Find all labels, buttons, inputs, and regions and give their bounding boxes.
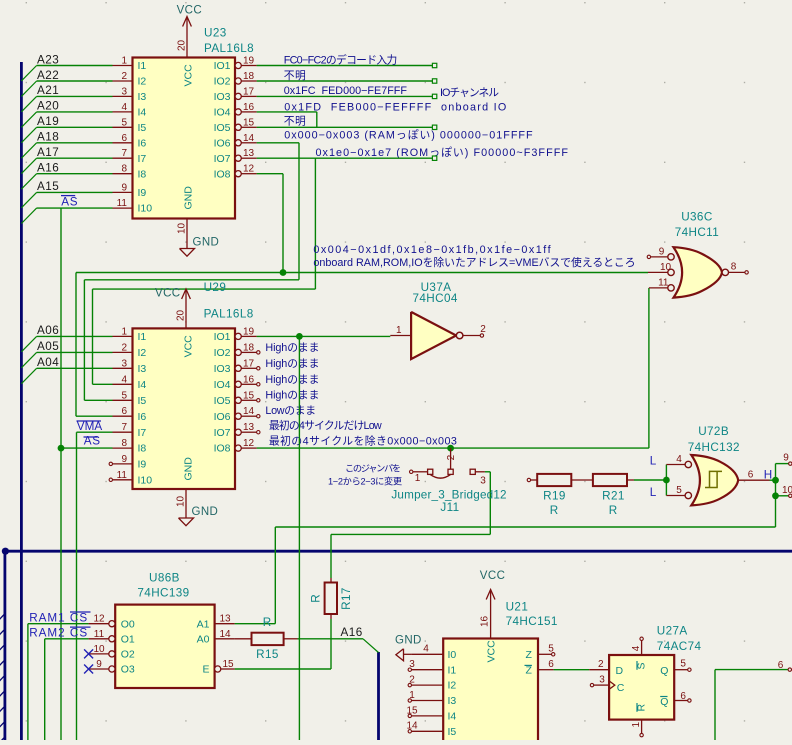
svg-text:I6: I6	[138, 137, 147, 149]
svg-text:9: 9	[121, 182, 127, 193]
wire VMA to U29 pin7	[77, 431, 113, 433]
svg-text:IO6: IO6	[214, 411, 231, 423]
svg-text:13: 13	[243, 148, 255, 159]
wire out net vertical	[775, 464, 777, 527]
svg-text:E: E	[202, 664, 209, 676]
svg-text:GND: GND	[192, 506, 219, 518]
svg-text:3: 3	[121, 358, 127, 369]
wire AS vertical	[60, 208, 62, 740]
power GND U21	[396, 649, 404, 661]
junction out net b	[772, 492, 779, 499]
wire to U29 pin6	[76, 415, 113, 417]
svg-text:IO2: IO2	[214, 76, 231, 88]
svg-text:VMA: VMA	[77, 420, 103, 433]
svg-text:Highのまま: Highのまま	[265, 341, 319, 354]
svg-text:15: 15	[243, 117, 255, 128]
wire R17 bottom	[330, 619, 332, 669]
U21 pin 15 I4	[411, 715, 443, 717]
svg-text:2: 2	[598, 659, 604, 670]
svg-text:J11: J11	[440, 501, 459, 514]
svg-text:O0: O0	[121, 618, 135, 630]
wire A04	[37, 367, 113, 369]
U21 pin 14 I5	[411, 730, 443, 732]
svg-text:8: 8	[731, 262, 737, 273]
svg-text:I3: I3	[138, 363, 147, 375]
wire U23 pin13	[257, 157, 433, 159]
svg-text:14: 14	[219, 629, 231, 640]
svg-text:Highのまま: Highのまま	[265, 373, 319, 386]
U36C pin 10	[668, 269, 674, 275]
svg-text:6: 6	[748, 470, 754, 481]
svg-text:VCC: VCC	[480, 570, 505, 582]
svg-text:5: 5	[121, 390, 127, 401]
svg-text:A21: A21	[37, 84, 59, 97]
U36C pin 11	[668, 285, 674, 291]
wire A21	[37, 95, 113, 97]
svg-text:Highのまま: Highのまま	[265, 357, 319, 370]
svg-text:17: 17	[243, 358, 255, 369]
junction AS at U29 pin8	[58, 445, 65, 452]
wire RAM1 CS	[28, 623, 89, 625]
wire U23 pin14 a	[257, 142, 299, 144]
bus entry A16	[21, 174, 36, 189]
svg-text:2: 2	[446, 454, 457, 460]
U36C pin 9	[668, 254, 674, 260]
svg-text:Highのまま: Highのまま	[265, 389, 319, 402]
wire U86B A1	[235, 623, 276, 625]
svg-text:6: 6	[548, 659, 554, 670]
svg-text:13: 13	[243, 422, 255, 433]
svg-text:I4: I4	[138, 107, 147, 119]
svg-text:I2: I2	[138, 347, 147, 359]
svg-text:74HC04: 74HC04	[413, 292, 458, 305]
U21 pin 6 Zbar	[538, 669, 554, 671]
svg-text:IO3: IO3	[214, 91, 231, 103]
wire jumper3 to R17	[331, 533, 490, 535]
U23 pin 3 I3	[113, 95, 133, 97]
wire VMA down	[76, 432, 78, 740]
svg-text:O2: O2	[121, 649, 135, 661]
wire U23 pin14 to U29 pin5	[83, 280, 85, 401]
wire A16	[298, 638, 364, 640]
U29 pin 8 I8	[113, 447, 133, 449]
svg-text:I0: I0	[448, 649, 457, 661]
jumper J11 Jumper_3_Bridged12	[410, 470, 413, 473]
U23 pin 2 I2	[113, 80, 133, 82]
svg-text:A19: A19	[37, 115, 59, 128]
svg-text:I2: I2	[138, 76, 147, 88]
U21 pin 5 Z	[538, 653, 552, 655]
svg-text:0x1FD FEB000−FEFFFF onboard: 0x1FD FEB000−FEFFFF onboard IO	[284, 101, 507, 113]
svg-text:D: D	[616, 665, 624, 677]
wire AS to U23 pin 11	[37, 207, 113, 209]
svg-text:VCC: VCC	[155, 288, 180, 300]
svg-text:IO5: IO5	[214, 395, 231, 407]
wire to pin9 right	[776, 463, 789, 465]
svg-text:I5: I5	[138, 122, 147, 134]
open wire end pin13	[432, 156, 436, 160]
svg-text:IO2: IO2	[214, 347, 231, 359]
svg-text:2: 2	[121, 71, 127, 82]
wire A19	[37, 126, 113, 128]
svg-text:A04: A04	[37, 356, 59, 369]
svg-text:L: L	[650, 486, 657, 499]
wire U23 pin16 down	[316, 112, 318, 127]
svg-text:2: 2	[121, 342, 127, 353]
svg-text:I6: I6	[138, 411, 147, 423]
svg-text:1−2から2−3に変更: 1−2から2−3に変更	[328, 475, 402, 486]
svg-text:1: 1	[121, 326, 127, 337]
wire A15	[37, 191, 113, 193]
IC U29 PAL16L8 body	[133, 328, 236, 489]
svg-text:GND: GND	[193, 236, 220, 248]
U29 pin 11 I10	[113, 479, 133, 481]
svg-text:6: 6	[680, 691, 686, 702]
wire right pin6 down	[714, 670, 716, 740]
svg-text:20: 20	[176, 309, 187, 321]
inverter U37A 74HC04	[411, 312, 456, 359]
svg-text:RAM2 CS: RAM2 CS	[29, 627, 88, 640]
svg-text:5: 5	[121, 117, 127, 128]
power VCC U23	[186, 18, 188, 58]
svg-text:12: 12	[93, 614, 105, 625]
wire A05	[37, 351, 113, 353]
wire A06	[37, 335, 113, 337]
U23 pin 16 IO4	[235, 109, 241, 115]
svg-text:I8: I8	[138, 443, 147, 455]
svg-text:4: 4	[676, 454, 682, 465]
svg-text:7: 7	[121, 422, 127, 433]
U86B pin 15 E	[215, 666, 221, 672]
bus entries lower-left edge	[0, 613, 6, 745]
wire to U29 pin5	[84, 399, 112, 401]
bus entry A22	[21, 81, 36, 96]
resistor R21 lead right	[627, 479, 634, 481]
svg-text:A23: A23	[37, 53, 59, 66]
svg-text:I9: I9	[138, 187, 147, 199]
svg-text:VCC: VCC	[177, 5, 202, 17]
svg-text:A0: A0	[197, 633, 210, 645]
svg-text:R15: R15	[256, 648, 279, 661]
U72B schmitt mark	[705, 471, 722, 487]
U23 pin 19 IO1	[235, 62, 241, 68]
svg-text:GND: GND	[182, 457, 194, 481]
svg-text:R: R	[310, 594, 323, 602]
U29 pin 16 IO4	[235, 381, 241, 387]
svg-text:0x004−0x1df,0x1e8−0x1fb,0x1fe−: 0x004−0x1df,0x1e8−0x1fb,0x1fe−0x1ff	[313, 244, 552, 256]
junction pin12 net	[280, 269, 287, 276]
svg-text:11: 11	[117, 470, 128, 481]
svg-text:9: 9	[121, 454, 127, 465]
U23 pin 9 I9	[113, 191, 133, 193]
U27A pin 1 Rbar	[641, 720, 643, 734]
U23 pin 18 IO2	[235, 78, 241, 84]
svg-text:A18: A18	[37, 131, 59, 144]
IC U23 PAL16L8 body	[133, 58, 236, 219]
svg-text:O3: O3	[121, 664, 135, 676]
U86B pin 11 O1	[109, 636, 115, 642]
svg-text:I3: I3	[138, 91, 147, 103]
svg-text:74HC11: 74HC11	[675, 226, 719, 239]
U27A pin 5 Q	[674, 669, 688, 671]
wire A17	[37, 157, 113, 159]
U23 pin 1 I1	[113, 65, 133, 67]
svg-text:VCC: VCC	[182, 64, 194, 87]
wire A1 net down	[274, 527, 276, 624]
resistor R19 lead	[531, 479, 538, 481]
svg-text:I7: I7	[138, 153, 147, 165]
open wire end pin15	[432, 125, 436, 129]
open wire end pin19	[432, 63, 436, 67]
wire U29 pin12 row	[257, 447, 649, 449]
svg-text:IOチャンネル: IOチャンネル	[440, 86, 499, 99]
svg-text:I4: I4	[448, 711, 457, 723]
svg-text:4: 4	[423, 644, 429, 655]
wire A23	[37, 65, 113, 67]
wire U23 pin18	[257, 80, 433, 82]
U27A pin 3 C clock	[594, 684, 610, 686]
bus entry A06	[21, 336, 36, 351]
wire VME net down to U29 pin6	[75, 273, 77, 417]
svg-text:A06: A06	[37, 324, 59, 337]
U29 pin 6 I6	[113, 415, 133, 417]
svg-text:8: 8	[121, 164, 127, 175]
svg-text:4: 4	[121, 102, 127, 113]
wire U23 pin16 a	[257, 111, 317, 113]
svg-text:6: 6	[121, 133, 127, 144]
svg-text:0x1e0−0x1e7 (ROMっぽい) F00000~F3: 0x1e0−0x1e7 (ROMっぽい) F00000~F3FFFF	[316, 146, 570, 159]
power VCC U29	[185, 290, 187, 328]
resistor R17	[330, 578, 332, 583]
U27A pin 4 Sbar	[641, 641, 643, 656]
open wire end pin18	[432, 79, 436, 83]
wire U21 Z to U27A D	[554, 669, 590, 671]
U29 pin 4 I4	[113, 383, 133, 385]
svg-text:74HC151: 74HC151	[506, 615, 558, 628]
svg-text:16: 16	[243, 374, 255, 385]
wire RAM2 CS down	[44, 639, 46, 740]
wire U23 pin13 left	[93, 288, 316, 290]
U86B pin 9 O3	[109, 666, 115, 672]
svg-text:0x000−0x003 (RAMっぽい) 000000−01: 0x000−0x003 (RAMっぽい) 000000−01FFFF	[284, 129, 533, 142]
wire U23 pin13 to U29 pin4	[92, 289, 94, 384]
wire U23 pin17	[257, 95, 433, 97]
svg-text:C: C	[617, 682, 625, 694]
bus horizontal	[5, 550, 792, 553]
svg-text:8: 8	[121, 438, 127, 449]
svg-text:A20: A20	[37, 100, 59, 113]
bus vertical address bus left	[20, 62, 23, 740]
svg-text:IO7: IO7	[214, 153, 231, 165]
svg-text:IO1: IO1	[214, 60, 231, 72]
bus entry A18	[21, 143, 36, 158]
svg-text:A22: A22	[37, 69, 59, 82]
U29 pin 5 I5	[113, 399, 133, 401]
U23 pin 14 IO6	[235, 140, 241, 146]
J11 pin2 line	[450, 448, 452, 469]
wire right pin6	[715, 669, 788, 671]
svg-text:IO6: IO6	[214, 137, 231, 149]
svg-text:13: 13	[219, 614, 231, 625]
wire U23 pin14 left	[84, 279, 299, 281]
IC U86B 74HC139 body	[115, 605, 214, 688]
svg-text:I5: I5	[448, 726, 457, 738]
svg-text:最初の4サイクルを除き0x000−0x003: 最初の4サイクルを除き0x000−0x003	[269, 433, 457, 447]
wire up to U36C pin11	[648, 288, 650, 448]
svg-text:O1: O1	[121, 633, 135, 645]
svg-text:I10: I10	[138, 474, 153, 486]
wire U23 pin13 down	[314, 158, 316, 289]
svg-text:R: R	[550, 504, 558, 517]
svg-text:I1: I1	[448, 664, 457, 676]
svg-text:3: 3	[599, 675, 605, 686]
U86B pin 13 A1	[215, 623, 235, 625]
wire A18	[37, 142, 113, 144]
U23 pin 11 I10	[113, 207, 133, 209]
svg-text:10: 10	[782, 485, 792, 496]
svg-text:onboard RAM,ROM,IOを除いたアドレス=VME: onboard RAM,ROM,IOを除いたアドレス=VMEバスで使えるところ	[313, 255, 635, 269]
svg-text:5: 5	[676, 485, 682, 496]
svg-text:GND: GND	[395, 635, 422, 647]
svg-text:0x1FC FED000−FE7FFF: 0x1FC FED000−FE7FFF	[284, 85, 408, 97]
svg-text:18: 18	[243, 342, 255, 353]
wire AS to U29 pin8	[61, 447, 113, 449]
svg-text:不明: 不明	[284, 115, 307, 128]
wire RAM1 CS down	[27, 624, 29, 740]
svg-text:10: 10	[177, 222, 188, 234]
bus entry A21	[21, 96, 36, 111]
svg-text:最初の4サイクルだけLow: 最初の4サイクルだけLow	[269, 418, 382, 432]
svg-text:不明: 不明	[284, 69, 307, 82]
svg-text:FC0−FC2のデコード入力: FC0−FC2のデコード入力	[284, 52, 397, 66]
svg-text:9: 9	[96, 659, 102, 670]
svg-text:5: 5	[548, 643, 554, 654]
pin 10 right edge	[789, 494, 792, 497]
svg-text:Jumper_3_Bridged12: Jumper_3_Bridged12	[391, 488, 506, 501]
open wire end pin17	[432, 94, 436, 98]
svg-text:A17: A17	[37, 146, 59, 159]
svg-text:5: 5	[680, 659, 686, 670]
wire U72B out	[770, 479, 776, 481]
svg-text:10: 10	[660, 262, 672, 273]
power GND U29	[185, 489, 187, 518]
svg-text:R21: R21	[602, 490, 625, 503]
U23 pin 4 I4	[113, 111, 133, 113]
bus entry A05	[21, 352, 36, 367]
U27A pin 6 Qbar	[674, 700, 688, 702]
wire U72B input tie	[665, 465, 667, 496]
U29 pin 9 I9	[113, 463, 133, 465]
U23 pin 7 I7	[113, 157, 133, 159]
svg-text:I10: I10	[138, 203, 153, 215]
svg-text:9: 9	[783, 453, 789, 464]
svg-text:9: 9	[659, 246, 665, 257]
svg-text:IO5: IO5	[214, 122, 231, 134]
svg-text:74AC74: 74AC74	[657, 640, 702, 653]
svg-text:2: 2	[480, 324, 486, 335]
power VCC U21	[490, 590, 492, 639]
svg-text:I3: I3	[448, 695, 457, 707]
U27A pin 2 D	[589, 669, 609, 671]
U29 pin 15 IO5	[235, 397, 241, 403]
svg-text:PAL16L8: PAL16L8	[204, 42, 254, 55]
svg-text:10: 10	[176, 495, 187, 507]
resistor R21	[593, 474, 627, 486]
wire U23 pin12 a	[257, 173, 283, 175]
bus entry A17	[21, 158, 36, 173]
wire R17 top	[330, 534, 332, 578]
U23 pin 15 IO5	[235, 124, 241, 130]
wire A16	[37, 173, 113, 175]
svg-text:IO7: IO7	[214, 427, 231, 439]
U23 pin 6 I6	[113, 142, 133, 144]
U72B pin 4	[685, 461, 691, 467]
svg-text:A16: A16	[341, 626, 363, 639]
svg-text:I1: I1	[138, 331, 147, 343]
svg-text:19: 19	[243, 56, 255, 67]
svg-text:IO8: IO8	[214, 168, 231, 180]
svg-text:11: 11	[658, 277, 669, 288]
U86B pin 10 O2	[109, 651, 115, 657]
U23 pin 13 IO7	[235, 155, 241, 161]
svg-text:4: 4	[631, 645, 642, 651]
wire A20	[37, 111, 113, 113]
svg-text:U36C: U36C	[681, 211, 712, 224]
wire to pin10 right	[776, 495, 789, 497]
U21 pin 3 I1	[411, 669, 443, 671]
svg-text:1: 1	[396, 325, 402, 336]
svg-text:3: 3	[480, 475, 486, 486]
svg-text:VCC: VCC	[182, 335, 194, 358]
svg-text:16: 16	[480, 615, 491, 627]
svg-text:20: 20	[177, 39, 188, 51]
bus entry A15	[21, 192, 36, 207]
svg-text:R19: R19	[543, 490, 566, 503]
svg-text:AS: AS	[61, 196, 78, 209]
svg-text:I8: I8	[138, 168, 147, 180]
svg-text:I7: I7	[138, 427, 147, 439]
U29 pin 19 IO1	[235, 333, 241, 339]
junction jumper tap	[447, 445, 454, 452]
svg-text:IO8: IO8	[214, 443, 231, 455]
U29 pin 14 IO6	[235, 413, 241, 419]
svg-text:I2: I2	[448, 680, 457, 692]
U23 pin 17 IO3	[235, 93, 241, 99]
svg-text:19: 19	[243, 326, 255, 337]
svg-text:10: 10	[93, 644, 105, 655]
bus entry A20	[21, 112, 36, 127]
svg-text:R17: R17	[340, 587, 353, 610]
U29 pin 17 IO3	[235, 365, 241, 371]
U29 pin 18 IO2	[235, 349, 241, 355]
wire J11 pin3	[485, 471, 490, 473]
svg-text:74HC139: 74HC139	[137, 587, 189, 600]
svg-text:17: 17	[243, 86, 255, 97]
wire pin19 net down	[298, 336, 300, 740]
svg-text:14: 14	[243, 133, 255, 144]
svg-text:Lowのまま: Lowのまま	[265, 404, 315, 417]
svg-text:RAM1 CS: RAM1 CS	[29, 611, 88, 624]
wire to U29 pin4	[93, 383, 113, 385]
svg-text:A05: A05	[37, 340, 59, 353]
wire U23 pin15	[257, 126, 433, 128]
bus entry A23	[21, 66, 36, 81]
U72B pin 6 output	[738, 479, 769, 481]
IC U27A 74AC74 body	[609, 655, 674, 720]
svg-text:A1: A1	[197, 618, 210, 630]
svg-text:A16: A16	[37, 162, 59, 175]
svg-text:11: 11	[117, 198, 128, 209]
